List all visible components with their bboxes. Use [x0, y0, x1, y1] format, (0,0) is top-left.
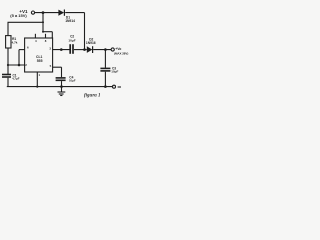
svg-text:4,7μF: 4,7μF	[12, 77, 20, 81]
svg-text:(MAX 28V): (MAX 28V)	[114, 51, 128, 55]
svg-text:10μF: 10μF	[69, 79, 76, 83]
svg-text:10μF: 10μF	[111, 70, 118, 74]
svg-text:+Vo: +Vo	[115, 47, 121, 51]
svg-text:1N916: 1N916	[86, 41, 96, 45]
svg-text:(5 a 15V): (5 a 15V)	[10, 13, 27, 18]
svg-text:555: 555	[37, 59, 43, 63]
svg-text:4,7k: 4,7k	[12, 41, 18, 45]
svg-text:figura 1: figura 1	[84, 93, 101, 98]
svg-text:1N914: 1N914	[65, 19, 75, 23]
svg-text:10μF: 10μF	[68, 38, 75, 42]
